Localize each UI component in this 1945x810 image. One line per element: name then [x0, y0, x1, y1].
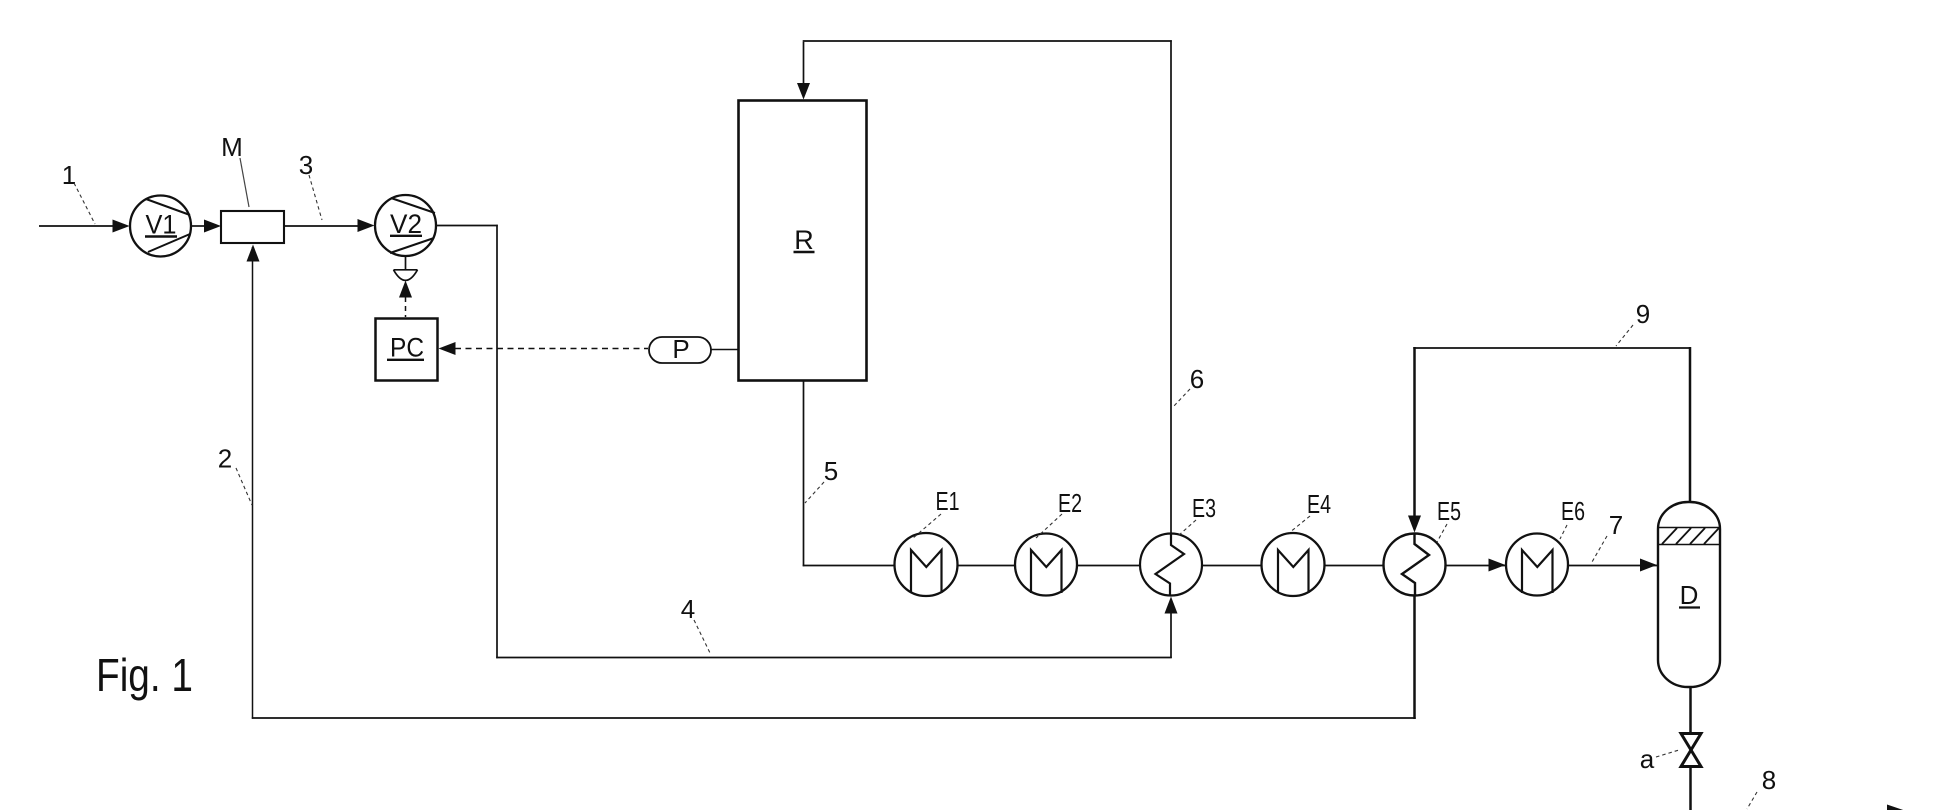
- wire line 5 from R bottom: [803, 381, 805, 566]
- leader label 9: [1616, 325, 1633, 346]
- wire line 9 down to D top: [1689, 347, 1692, 504]
- svg-text:6: 6: [1190, 364, 1204, 394]
- arrow PC to actuator: [399, 281, 412, 298]
- leader label 6: [1173, 389, 1190, 407]
- leader label 4: [694, 620, 711, 655]
- leader label a: [1656, 750, 1679, 757]
- leader label 7: [1592, 536, 1607, 562]
- heater E6: [1506, 534, 1568, 596]
- exchanger E3: [1140, 534, 1202, 596]
- wire recycle top riser: [803, 42, 805, 84]
- wire below E5 down: [1413, 595, 1416, 719]
- wire line 4 horizontal: [496, 657, 1172, 659]
- leader label 2: [236, 468, 252, 505]
- arrow into E5 top: [1408, 516, 1421, 533]
- wire line 2 horizontal: [252, 717, 1416, 719]
- heater E1: [895, 533, 958, 596]
- wire line 4 vertical from V2: [496, 225, 498, 659]
- arrow into PC: [439, 342, 456, 355]
- svg-text:D: D: [1680, 580, 1699, 610]
- leader label E6: [1560, 525, 1567, 539]
- wire P to R: [711, 349, 738, 351]
- svg-text:M: M: [221, 132, 243, 162]
- arrow into D: [1640, 559, 1657, 572]
- leader label E5: [1437, 524, 1447, 542]
- wire main exchanger train line: [803, 565, 1658, 567]
- leader label 8: [1747, 792, 1757, 809]
- svg-text:V2: V2: [390, 209, 422, 239]
- wire below valve: [1689, 766, 1692, 810]
- svg-text:Fig. 1: Fig. 1: [96, 649, 193, 701]
- wire line 9 horizontal: [1413, 347, 1691, 349]
- wire line 2 vertical to M: [252, 247, 254, 719]
- sensor P: [649, 334, 711, 364]
- arrow E5 to E6: [1489, 559, 1506, 572]
- compressor V1: [130, 196, 191, 257]
- svg-text:P: P: [672, 334, 689, 364]
- leader label E3: [1178, 520, 1196, 536]
- arrow into V1: [113, 220, 130, 233]
- svg-text:E1: E1: [936, 486, 960, 516]
- svg-text:a: a: [1640, 744, 1655, 774]
- svg-text:3: 3: [299, 150, 313, 180]
- svg-text:5: 5: [824, 456, 838, 486]
- leader label 1: [74, 183, 95, 224]
- separator D: [1658, 502, 1720, 687]
- arrow into M: [204, 220, 221, 233]
- compressor V2: [375, 195, 436, 256]
- svg-text:E6: E6: [1561, 496, 1585, 526]
- arrow into V2: [358, 219, 375, 232]
- svg-text:V1: V1: [146, 210, 177, 240]
- dashed wire PC up: [405, 297, 407, 317]
- wire top loop horizontal: [803, 40, 1172, 42]
- leader label 3: [309, 175, 322, 220]
- svg-text:E2: E2: [1058, 488, 1082, 518]
- reactor R: [739, 101, 867, 381]
- dashed wire P to PC: [455, 348, 648, 350]
- wire thick recycle 9 down to E5: [1413, 347, 1416, 518]
- wire V1 to M: [191, 225, 207, 227]
- leader label E4: [1289, 516, 1310, 533]
- wire D bottom: [1689, 686, 1692, 734]
- controller PC: [376, 319, 438, 381]
- svg-text:9: 9: [1636, 299, 1650, 329]
- wire feed line 1: [39, 225, 114, 227]
- arrow into E3 bottom: [1165, 597, 1178, 614]
- wire V2 output: [436, 225, 498, 227]
- heater E4: [1262, 533, 1325, 596]
- leader label M: [240, 158, 249, 207]
- valve actuator under V2: [394, 270, 418, 281]
- arrow into R top: [797, 83, 810, 100]
- wire V2 stub to actuator: [405, 256, 407, 270]
- svg-text:1: 1: [62, 160, 76, 190]
- svg-text:4: 4: [681, 594, 695, 624]
- svg-text:2: 2: [218, 444, 232, 474]
- leader label E1: [912, 514, 941, 539]
- leader label E2: [1036, 514, 1062, 538]
- svg-text:PC: PC: [390, 333, 424, 363]
- wire M to V2: [284, 225, 360, 227]
- svg-text:E5: E5: [1437, 496, 1461, 526]
- svg-text:8: 8: [1762, 765, 1776, 795]
- wire line 6 vertical: [1170, 40, 1172, 535]
- leader label 5: [805, 482, 824, 503]
- svg-text:E4: E4: [1307, 489, 1331, 519]
- svg-text:R: R: [794, 225, 814, 255]
- arrow into M bottom: [247, 245, 260, 262]
- svg-text:7: 7: [1609, 510, 1623, 540]
- exchanger E5: [1384, 534, 1446, 596]
- heater E2: [1015, 534, 1077, 596]
- svg-text:E3: E3: [1192, 493, 1216, 523]
- wire line 4 riser to E3: [1170, 600, 1172, 658]
- mixer M: [221, 211, 284, 243]
- arrow outlet 8: [1887, 805, 1915, 810]
- valve a: [1681, 734, 1701, 767]
